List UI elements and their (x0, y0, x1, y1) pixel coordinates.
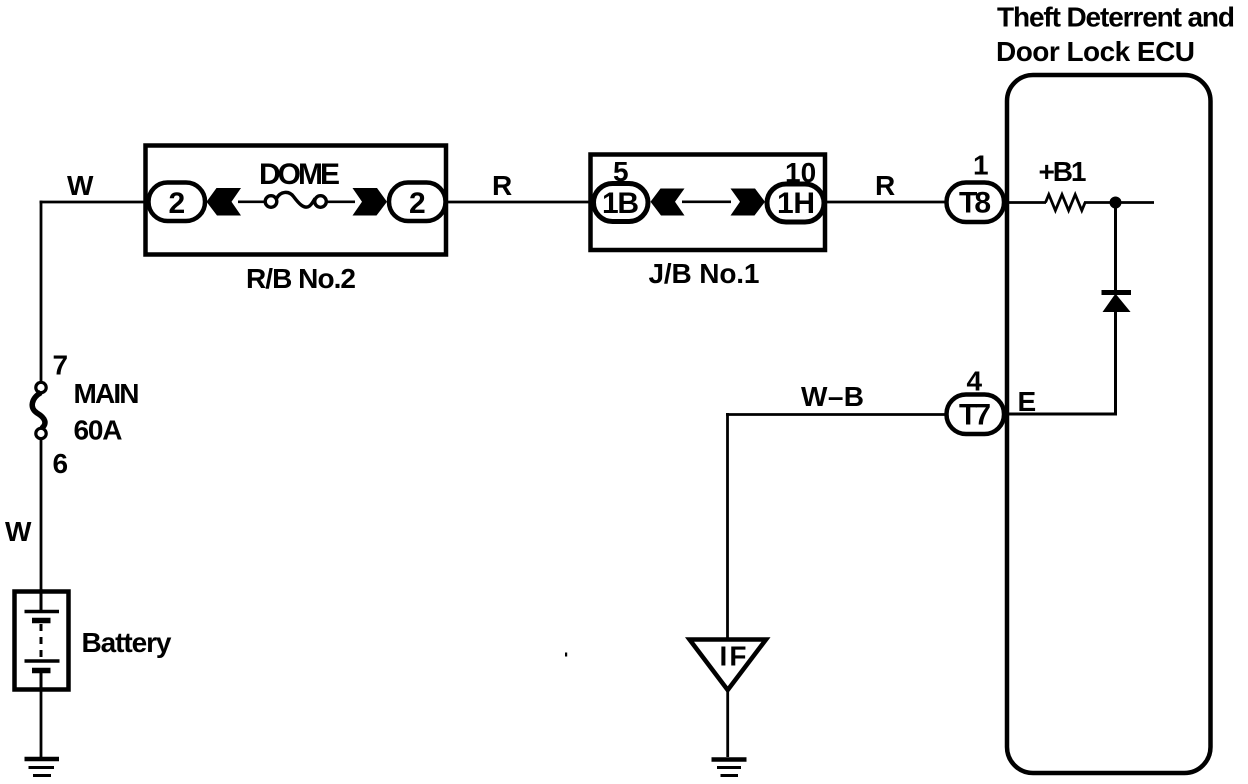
wire: between arrows inside J/B No.1 (682, 201, 731, 204)
wire: T8 into ECU to resistor (1004, 201, 1046, 204)
label: J/B No.1 (649, 258, 760, 289)
svg-text:W–B: W–B (801, 381, 864, 412)
connector oval T7 (947, 395, 1005, 435)
ECU box: Theft Deterrent and Door Lock ECU (1007, 75, 1211, 773)
svg-text:Door Lock ECU: Door Lock ECU (996, 36, 1195, 67)
fuse MAIN 60A (fusible link symbol) (32, 382, 46, 438)
svg-text:4: 4 (967, 366, 983, 397)
label: pin 1 (T8) (973, 150, 989, 181)
svg-text:2: 2 (169, 187, 186, 220)
arrow (right-pointing, R/B No.2) (353, 188, 388, 216)
svg-text:W: W (67, 170, 94, 201)
label: MAIN (74, 378, 140, 409)
connector oval 2 (left, R/B No.2) (149, 183, 206, 222)
wire: node down to diode (1114, 203, 1117, 293)
connector oval T8 (947, 183, 1005, 223)
ground (IF) (712, 760, 747, 776)
connector IF (triangle) (690, 640, 767, 691)
battery (box with cell plates) (15, 589, 69, 691)
svg-text:60A: 60A (74, 415, 123, 446)
label: pin 6 (fuse MAIN bottom) (53, 448, 69, 479)
node: junction dot at +B1 line (1110, 197, 1122, 209)
label: pin 10 (1H) (785, 157, 816, 188)
wire: left vertical from W wire down to fuse MAIN (40, 201, 43, 383)
label: R (first) (492, 170, 512, 201)
label: W (top left) (67, 170, 94, 201)
wire: arrow to fuse DOME (238, 201, 265, 204)
svg-text:Theft Deterrent and: Theft Deterrent and (997, 2, 1235, 33)
label: pin 7 (fuse MAIN top) (53, 350, 69, 381)
svg-text:1B: 1B (602, 187, 639, 220)
ground (battery) (25, 759, 60, 776)
svg-text:R/B No.2: R/B No.2 (246, 263, 356, 294)
svg-text:+B1: +B1 (1039, 156, 1087, 187)
svg-text:R: R (492, 170, 512, 201)
arrow (right-pointing, J/B No.1) (731, 189, 766, 216)
label: pin 5 (1B) (613, 156, 629, 187)
label: Battery (82, 627, 172, 658)
wire: IF triangle to ground (726, 689, 729, 757)
svg-text:MAIN: MAIN (74, 378, 140, 409)
label: Theft Deterrent and (997, 2, 1235, 33)
wire: R segment between J/B No.1 and T8 (824, 201, 947, 204)
label: W-B (801, 381, 864, 412)
diode (cathode up, inside ECU) (1102, 293, 1132, 312)
svg-text:T8: T8 (959, 187, 991, 220)
label: R (second) (875, 170, 895, 201)
junction block R/B No.2 box (146, 146, 447, 255)
arrow (left-pointing, R/B No.2) (207, 188, 242, 216)
fuse DOME (265, 192, 326, 207)
svg-text:T7: T7 (959, 399, 991, 432)
label: 60A (74, 415, 123, 446)
svg-text:2: 2 (409, 187, 426, 220)
wire: diode down to E line (1114, 311, 1117, 414)
svg-text:W: W (5, 516, 32, 547)
svg-text:DOME: DOME (259, 158, 340, 191)
wire: W-B horizontal from IF drop to T7 (726, 413, 947, 416)
svg-text:Battery: Battery (82, 627, 172, 658)
wire: E horizontal line inside ECU (1007, 413, 1117, 416)
svg-text:1H: 1H (777, 187, 815, 220)
label: pin 4 (T7) (967, 366, 983, 397)
connector oval 1H (767, 184, 824, 222)
wire: top-left horizontal W segment (40, 201, 147, 204)
svg-text:6: 6 (53, 448, 69, 479)
svg-text:E: E (1018, 386, 1037, 417)
svg-text:1: 1 (973, 150, 989, 181)
wire: vertical from fuse MAIN down to battery (40, 439, 43, 590)
wire: vertical down to IF connector (726, 413, 729, 639)
label: +B1 (1039, 156, 1087, 187)
svg-text:7: 7 (53, 350, 69, 381)
wire: resistor to node and right stub (1084, 201, 1154, 204)
svg-text:R: R (875, 170, 895, 201)
connector oval 1B (594, 184, 649, 222)
wire: fuse DOME to right arrow (326, 201, 355, 204)
wire: battery negative to ground (40, 691, 43, 757)
svg-text:IF: IF (720, 641, 747, 672)
label: DOME (259, 158, 340, 191)
resistor (inside ECU, +B1 line) (1046, 195, 1086, 211)
connector oval 2 (right, R/B No.2) (389, 183, 446, 222)
junction block J/B No.1 box (591, 155, 826, 251)
svg-text:J/B No.1: J/B No.1 (649, 258, 760, 289)
arrow (left-pointing, J/B No.1) (651, 189, 685, 216)
label: Door Lock ECU (996, 36, 1195, 67)
label: W (left middle) (5, 516, 32, 547)
wire: R segment between R/B No.2 and J/B No.1 (446, 201, 591, 204)
label: R/B No.2 (246, 263, 356, 294)
label: E (1018, 386, 1037, 417)
